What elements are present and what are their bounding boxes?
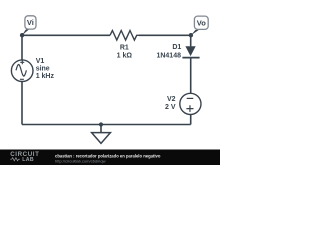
svg-text:Vi: Vi [27, 18, 34, 27]
svg-text:1N4148: 1N4148 [156, 52, 181, 59]
svg-text:2 V: 2 V [165, 104, 176, 111]
svg-text:V2: V2 [167, 96, 176, 103]
svg-text:Vo: Vo [197, 19, 206, 28]
svg-text:1 kHz: 1 kHz [36, 73, 55, 80]
svg-text:V1: V1 [36, 58, 45, 65]
svg-text:LAB: LAB [22, 157, 34, 163]
svg-text:D1: D1 [172, 44, 181, 51]
svg-text:1 kΩ: 1 kΩ [117, 53, 133, 60]
svg-text:R1: R1 [120, 45, 129, 52]
svg-text:sine: sine [36, 65, 50, 72]
svg-text:http://circuitlab.com/c6dmqw: http://circuitlab.com/c6dmqw [55, 158, 106, 163]
